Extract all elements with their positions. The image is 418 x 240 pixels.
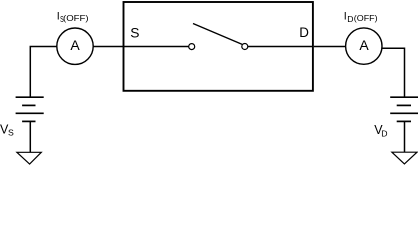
svg-text:D: D (381, 129, 387, 139)
enclosure box (device under test) (124, 2, 313, 91)
label ID(OFF) (344, 10, 378, 23)
wire (382, 48, 404, 97)
svg-text:D: D (347, 14, 353, 24)
battery VS (16, 97, 44, 121)
svg-text:(OFF): (OFF) (63, 13, 89, 23)
ground (392, 152, 417, 164)
svg-text:(OFF): (OFF) (354, 13, 378, 23)
svg-text:A: A (70, 37, 80, 53)
label VD (374, 123, 387, 139)
battery VD (390, 97, 418, 121)
svg-text:D: D (299, 25, 309, 40)
switch (open) (189, 24, 248, 50)
svg-text:S: S (130, 26, 139, 41)
ammeter A (source current) (57, 28, 93, 64)
wire (404, 121, 406, 152)
svg-text:S: S (8, 128, 14, 138)
wire (314, 46, 346, 48)
ground (17, 152, 41, 164)
label VS (0, 122, 14, 137)
wire (30, 47, 57, 98)
wire (93, 46, 123, 48)
ammeter A (drain current) (346, 28, 382, 64)
wire (248, 46, 312, 48)
wire (29, 121, 31, 152)
svg-text:A: A (359, 37, 369, 53)
label IS(OFF) (57, 10, 89, 24)
wire (124, 46, 189, 48)
